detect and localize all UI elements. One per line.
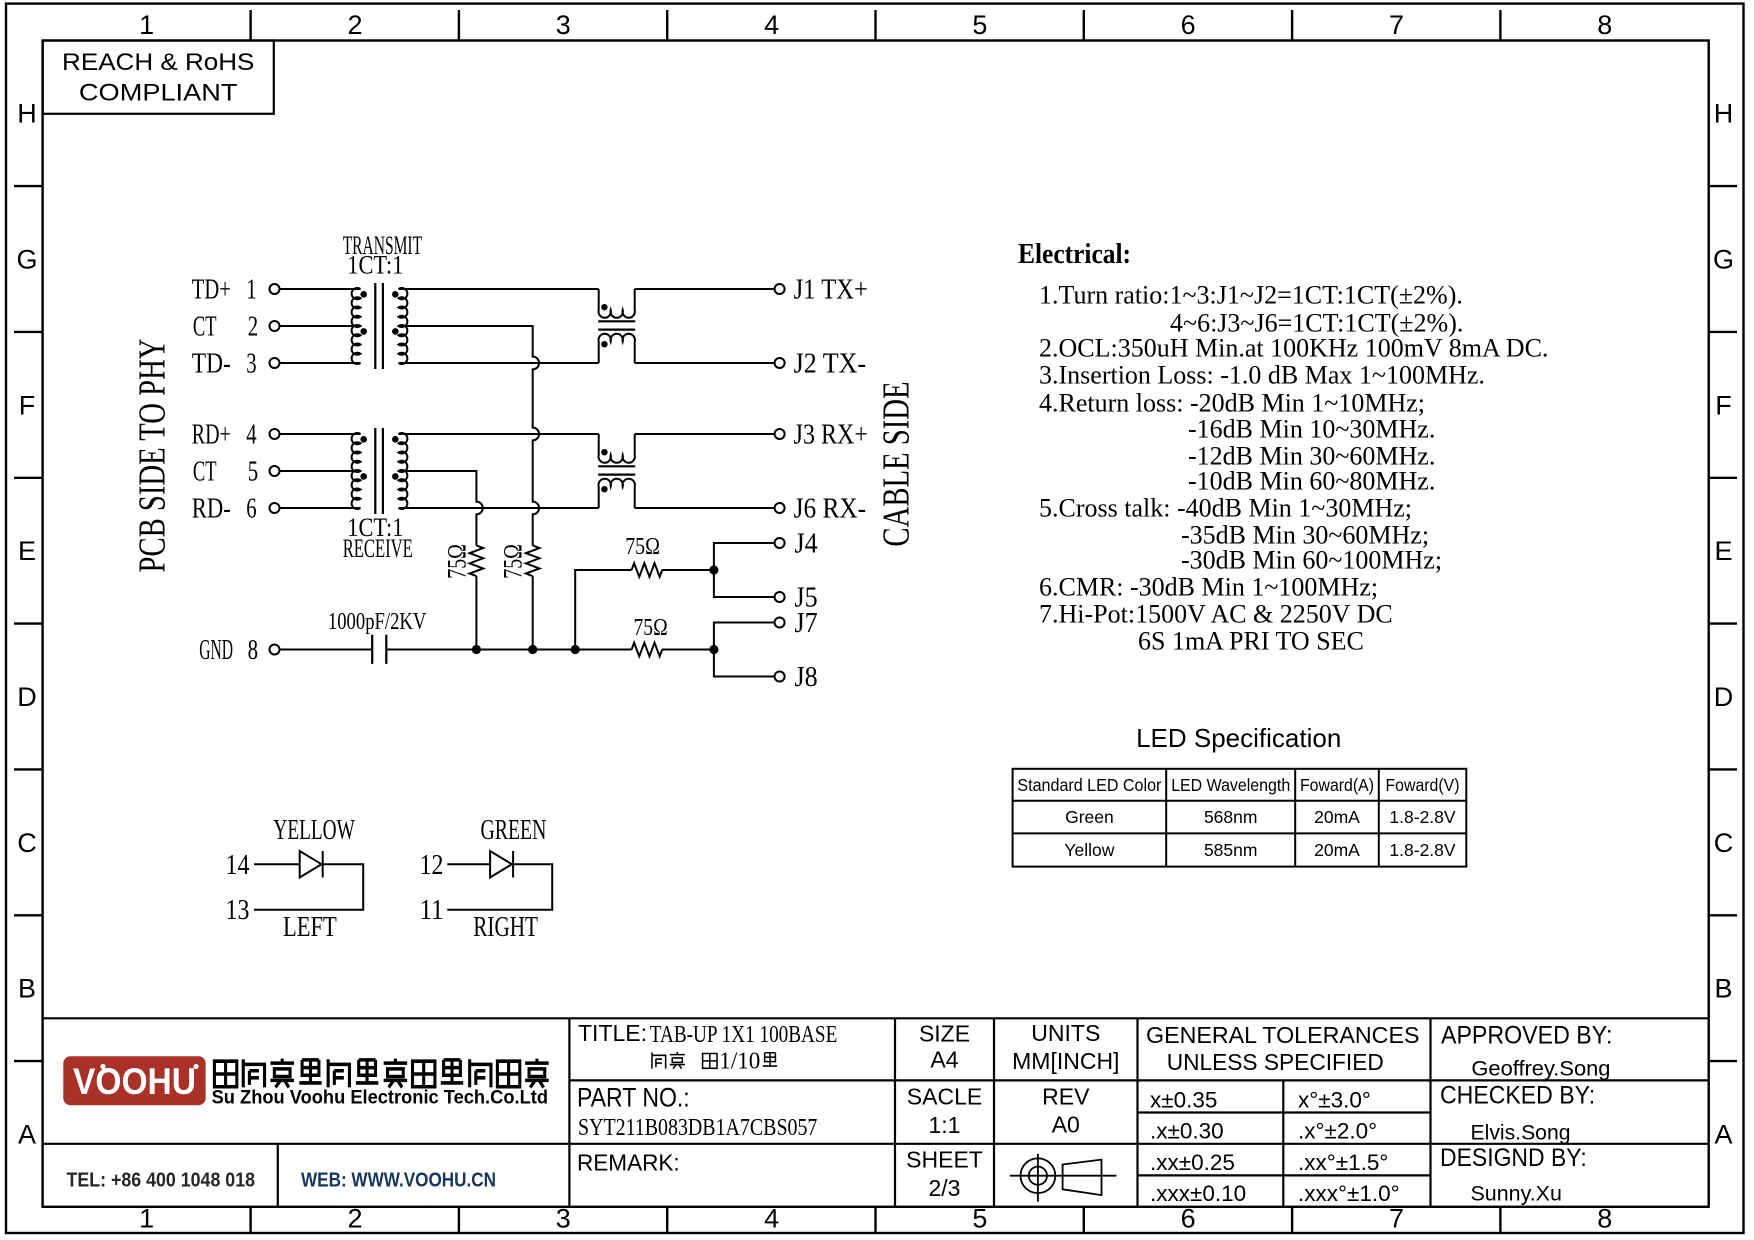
svg-text:6.CMR: -30dB Min 1~100MHz;: 6.CMR: -30dB Min 1~100MHz;	[1039, 573, 1378, 602]
svg-text:1.8-2.8V: 1.8-2.8V	[1389, 807, 1455, 827]
company name Chinese: Su Zhou Voohu Electronic Tech	[214, 1059, 548, 1088]
svg-text:Electrical:: Electrical:	[1018, 239, 1131, 270]
svg-text:1.8-2.8V: 1.8-2.8V	[1389, 840, 1455, 860]
svg-text:SACLE: SACLE	[907, 1084, 982, 1110]
svg-text:4: 4	[764, 10, 779, 40]
svg-text:1:1: 1:1	[929, 1112, 961, 1138]
part number cell	[577, 1083, 817, 1142]
wire pin1 to T1 primary top	[280, 288, 361, 290]
junction R2-bus	[528, 645, 537, 654]
svg-text:x°±3.0°: x°±3.0°	[1298, 1088, 1371, 1113]
pin J6 RX-	[775, 494, 867, 525]
capacitor C1 1000pF/2KV	[328, 609, 427, 664]
wire R2 to ground bus	[532, 576, 534, 649]
resistor R4 75ohm	[632, 615, 668, 657]
svg-text:2/3: 2/3	[929, 1175, 961, 1201]
first-angle projection symbol	[1010, 1154, 1117, 1202]
svg-text:C: C	[17, 828, 37, 858]
svg-text:1CT:1: 1CT:1	[347, 250, 403, 279]
svg-text:DESIGND BY:: DESIGND BY:	[1440, 1144, 1587, 1172]
svg-text:REV: REV	[1042, 1084, 1090, 1110]
svg-text:3: 3	[556, 10, 571, 40]
wire branch to pins J7 and J8	[714, 623, 775, 677]
svg-text:12: 12	[420, 850, 444, 881]
svg-text:J8: J8	[795, 662, 818, 693]
svg-text:TD+: TD+	[192, 275, 231, 306]
transformer T1 TRANSMIT 1CT:1	[352, 283, 408, 369]
node label CABLE SIDE	[876, 381, 918, 546]
svg-text:COMPLIANT: COMPLIANT	[79, 80, 238, 107]
wire pin3 to T1 primary bottom	[280, 362, 361, 364]
pin J2 TX-	[775, 349, 867, 380]
svg-text:75Ω: 75Ω	[625, 534, 660, 560]
junction R3 to J4/J5 branch	[709, 565, 718, 574]
pin J5	[775, 583, 818, 614]
svg-text:.xx°±1.5°: .xx°±1.5°	[1298, 1150, 1388, 1175]
company logo VOOHU	[63, 1056, 205, 1105]
svg-text:5: 5	[248, 457, 258, 488]
svg-text:C: C	[1714, 828, 1734, 858]
svg-text:3: 3	[556, 1203, 571, 1233]
wire pin4 to T2 primary top	[280, 433, 361, 435]
svg-text:F: F	[1715, 390, 1732, 420]
svg-text:D: D	[17, 682, 37, 712]
svg-text:B: B	[1714, 974, 1732, 1004]
svg-text:2: 2	[248, 312, 258, 343]
svg-text:2: 2	[347, 10, 362, 40]
svg-text:5: 5	[972, 10, 987, 40]
LED D2 diode symbol and wires	[447, 851, 552, 910]
svg-text:A: A	[18, 1119, 36, 1149]
svg-text:.x±0.30: .x±0.30	[1150, 1119, 1224, 1144]
svg-text:.xxx±0.10: .xxx±0.10	[1150, 1181, 1246, 1206]
svg-text:Standard LED Color: Standard LED Color	[1017, 775, 1161, 795]
svg-text:Foward(A): Foward(A)	[1300, 775, 1374, 795]
svg-text:.xxx°±1.0°: .xxx°±1.0°	[1298, 1181, 1400, 1206]
svg-text:6: 6	[246, 494, 256, 525]
svg-text:UNLESS SPECIFIED: UNLESS SPECIFIED	[1167, 1049, 1384, 1075]
svg-text:.xx±0.25: .xx±0.25	[1150, 1150, 1235, 1175]
svg-text:A: A	[1714, 1119, 1732, 1149]
svg-text:CT: CT	[193, 457, 217, 488]
pin J7	[775, 608, 818, 639]
svg-text:VOOHU: VOOHU	[73, 1061, 196, 1102]
wire R4 to J7/J8 junction	[662, 649, 714, 651]
pin 2 CT	[193, 312, 280, 343]
svg-text:1/10: 1/10	[719, 1048, 760, 1074]
svg-text:TEL: +86 400 1048 018: TEL: +86 400 1048 018	[67, 1170, 256, 1192]
svg-text:Elvis.Song: Elvis.Song	[1471, 1122, 1571, 1145]
svg-text:7: 7	[1389, 1203, 1404, 1233]
wire choke L1 bottom to pin J2	[635, 362, 775, 364]
svg-text:WEB: WWW.VOOHU.CN: WEB: WWW.VOOHU.CN	[301, 1170, 496, 1192]
svg-text:1: 1	[139, 1203, 154, 1233]
svg-text:CHECKED BY:: CHECKED BY:	[1440, 1081, 1595, 1109]
svg-text:SYT211B083DB1A7CBS057: SYT211B083DB1A7CBS057	[578, 1115, 817, 1141]
svg-text:E: E	[1714, 536, 1732, 566]
svg-text:TD-: TD-	[192, 349, 231, 380]
wire choke L2 top to pin J3	[635, 433, 775, 435]
svg-text:TITLE:: TITLE:	[578, 1020, 647, 1046]
svg-text:REMARK:: REMARK:	[577, 1149, 680, 1175]
general tolerances cell	[1146, 1022, 1420, 1206]
svg-text:RD-: RD-	[192, 494, 231, 525]
LED specification table	[1013, 723, 1467, 867]
svg-text:4.Return loss: -20dB Min 1~10M: 4.Return loss: -20dB Min 1~10MHz;	[1039, 389, 1425, 418]
svg-text:G: G	[1713, 245, 1734, 275]
pin 1 TD+	[192, 275, 280, 306]
svg-text:H: H	[17, 99, 37, 129]
pin J4	[775, 529, 818, 560]
wire T2 secondary CT down to resistor R1, with wire hop	[399, 471, 483, 546]
svg-text:1000pF/2KV: 1000pF/2KV	[328, 609, 427, 635]
svg-text:75Ω: 75Ω	[443, 544, 472, 579]
svg-text:E: E	[18, 536, 36, 566]
svg-text:14: 14	[226, 850, 250, 881]
svg-text:G: G	[16, 245, 37, 275]
svg-text:75Ω: 75Ω	[499, 544, 528, 579]
svg-text:GND: GND	[199, 635, 233, 666]
svg-text:3.Insertion Loss: -1.0 dB Max: 3.Insertion Loss: -1.0 dB Max 1~100MHz.	[1039, 361, 1485, 390]
pin 5 CT	[193, 457, 280, 488]
wire pin2 to T1 primary center tap	[280, 325, 361, 327]
resistor R1 75ohm	[443, 544, 483, 579]
pin 3 TD-	[192, 349, 280, 380]
svg-text:13: 13	[226, 895, 250, 926]
transformer T2 RECEIVE 1CT:1	[352, 428, 408, 514]
svg-text:PART NO.:: PART NO.:	[577, 1083, 690, 1113]
svg-text:2: 2	[347, 1203, 362, 1233]
wire R3 to J4/J5 junction	[662, 569, 714, 571]
svg-text:5: 5	[972, 1203, 987, 1233]
svg-text:-16dB Min 10~30MHz.: -16dB Min 10~30MHz.	[1188, 415, 1435, 444]
svg-text:RIGHT: RIGHT	[473, 912, 538, 943]
svg-text:LED Specification: LED Specification	[1136, 723, 1341, 753]
svg-text:1: 1	[139, 10, 154, 40]
svg-text:TAB-UP 1X1 100BASE: TAB-UP 1X1 100BASE	[650, 1022, 838, 1048]
svg-text:RD+: RD+	[192, 420, 231, 451]
svg-text:6: 6	[1181, 1203, 1196, 1233]
svg-text:4: 4	[764, 1203, 779, 1233]
svg-text:3: 3	[246, 349, 256, 380]
wire pin5 to T2 primary center tap	[280, 470, 361, 472]
svg-text:Geoffrey.Song: Geoffrey.Song	[1471, 1058, 1610, 1081]
wire GND pin to capacitor C1	[280, 649, 373, 651]
wire choke L1 top to pin J1	[635, 288, 775, 290]
wire T2 secondary bottom to choke L2	[399, 507, 599, 509]
svg-text:REACH & RoHS: REACH & RoHS	[62, 49, 254, 76]
svg-text:J2 TX-: J2 TX-	[794, 349, 867, 380]
svg-text:SHEET: SHEET	[906, 1147, 983, 1173]
wire bus up to resistor R3	[575, 570, 631, 650]
svg-text:D: D	[1714, 682, 1734, 712]
svg-text:B: B	[18, 974, 36, 1004]
pin 8 GND	[199, 635, 279, 666]
pin J3 RX+	[775, 420, 868, 451]
svg-text:LED Wavelength: LED Wavelength	[1171, 775, 1290, 795]
svg-text:J7: J7	[795, 608, 818, 639]
label TRANSMIT 1CT:1	[343, 231, 422, 279]
svg-text:7: 7	[1389, 10, 1404, 40]
LED D1 diode symbol and wires	[254, 851, 363, 910]
approvals cells	[1440, 1021, 1612, 1205]
pin J8	[775, 662, 818, 693]
junction R1-bus	[472, 645, 481, 654]
node label PCB SIDE TO PHY	[132, 339, 174, 573]
svg-text:2.OCL:350uH Min.at 100KHz 100m: 2.OCL:350uH Min.at 100KHz 100mV 8mA DC.	[1039, 334, 1548, 363]
common-mode choke L2	[598, 434, 635, 508]
svg-text:Su Zhou Voohu Electronic Tech.: Su Zhou Voohu Electronic Tech.Co.Ltd	[212, 1088, 548, 1109]
svg-text:-30dB Min 60~100MHz;: -30dB Min 60~100MHz;	[1181, 546, 1442, 575]
svg-text:5.Cross talk: -40dB Min 1~30MH: 5.Cross talk: -40dB Min 1~30MHz;	[1039, 494, 1412, 523]
svg-text:GREEN: GREEN	[481, 815, 547, 846]
common-mode choke L1	[598, 289, 635, 363]
svg-text:A4: A4	[930, 1046, 958, 1072]
pin 4 RD+	[192, 420, 280, 451]
svg-text:1: 1	[246, 275, 256, 306]
wire T1 secondary bottom to choke L1	[399, 362, 599, 364]
wire T1 secondary CT down to resistor R2, with wire hops	[399, 326, 540, 546]
title block grid	[43, 1018, 1709, 1207]
junction R4 to J7/J8 branch	[709, 645, 718, 654]
resistor R3 75ohm	[625, 534, 662, 577]
wire pin6 to T2 primary bottom	[280, 507, 361, 509]
REACH & RoHS compliance note box	[43, 41, 274, 114]
resistor R2 75ohm	[499, 544, 540, 579]
wire branch to pins J4 and J5	[714, 543, 775, 597]
svg-text:8: 8	[248, 635, 258, 666]
svg-text:APPROVED BY:: APPROVED BY:	[1441, 1021, 1612, 1049]
wire choke L2 bottom to pin J6	[635, 507, 775, 509]
wire T2 secondary top to choke L2	[399, 433, 599, 435]
svg-text:Sunny.Xu: Sunny.Xu	[1471, 1183, 1562, 1206]
svg-text:MM[INCH]: MM[INCH]	[1012, 1048, 1119, 1074]
svg-text:CABLE SIDE: CABLE SIDE	[876, 381, 918, 546]
pin J1 TX+	[775, 275, 868, 306]
svg-text:20mA: 20mA	[1314, 840, 1360, 860]
svg-text:CT: CT	[193, 312, 217, 343]
svg-text:8: 8	[1597, 1203, 1612, 1233]
svg-text:PCB SIDE TO PHY: PCB SIDE TO PHY	[132, 339, 174, 573]
size cell	[906, 1020, 1119, 1201]
svg-text:1.Turn ratio:1~3:J1~J2=1CT:1CT: 1.Turn ratio:1~3:J1~J2=1CT:1CT(±2%).	[1039, 281, 1463, 310]
svg-text:585nm: 585nm	[1204, 840, 1258, 860]
ground bus wire from C1 to resistor R4	[386, 649, 631, 651]
pin 6 RD-	[192, 494, 280, 525]
svg-text:A0: A0	[1052, 1112, 1080, 1138]
svg-text:YELLOW: YELLOW	[273, 815, 355, 846]
svg-text:UNITS: UNITS	[1031, 1020, 1100, 1046]
svg-text:J6 RX-: J6 RX-	[794, 494, 867, 525]
svg-text:75Ω: 75Ω	[634, 615, 668, 641]
svg-text:H: H	[1714, 99, 1734, 129]
junction bus-R3 branch	[571, 645, 580, 654]
svg-text:568nm: 568nm	[1204, 807, 1258, 827]
svg-text:J3 RX+: J3 RX+	[794, 420, 868, 451]
electrical specifications text	[1018, 239, 1548, 656]
svg-text:Foward(V): Foward(V)	[1386, 775, 1460, 795]
svg-text:LEFT: LEFT	[283, 912, 337, 943]
svg-text:x±0.35: x±0.35	[1150, 1088, 1217, 1113]
svg-text:J4: J4	[795, 529, 818, 560]
svg-text:7.Hi-Pot:1500V AC & 2250V DC: 7.Hi-Pot:1500V AC & 2250V DC	[1039, 600, 1393, 629]
svg-text:SIZE: SIZE	[919, 1021, 970, 1047]
svg-text:6S 1mA PRI TO SEC: 6S 1mA PRI TO SEC	[1138, 627, 1364, 656]
svg-text:4: 4	[246, 420, 256, 451]
svg-text:Green: Green	[1065, 807, 1114, 827]
svg-text:J1 TX+: J1 TX+	[794, 275, 868, 306]
svg-text:-10dB Min 60~80MHz.: -10dB Min 60~80MHz.	[1188, 467, 1435, 496]
svg-text:RECEIVE: RECEIVE	[343, 534, 413, 563]
svg-text:8: 8	[1597, 10, 1612, 40]
wire T1 secondary top to choke L1	[399, 288, 599, 290]
svg-text:Yellow: Yellow	[1064, 840, 1114, 860]
label 1CT:1 RECEIVE	[343, 513, 413, 563]
svg-text:F: F	[19, 390, 36, 420]
svg-text:11: 11	[420, 895, 444, 926]
svg-text:20mA: 20mA	[1314, 807, 1360, 827]
svg-text:.x°±2.0°: .x°±2.0°	[1298, 1119, 1377, 1144]
wire R1 to ground bus	[475, 576, 477, 649]
title cell	[578, 1020, 837, 1074]
svg-text:GENERAL TOLERANCES: GENERAL TOLERANCES	[1146, 1022, 1420, 1048]
svg-text:6: 6	[1181, 10, 1196, 40]
